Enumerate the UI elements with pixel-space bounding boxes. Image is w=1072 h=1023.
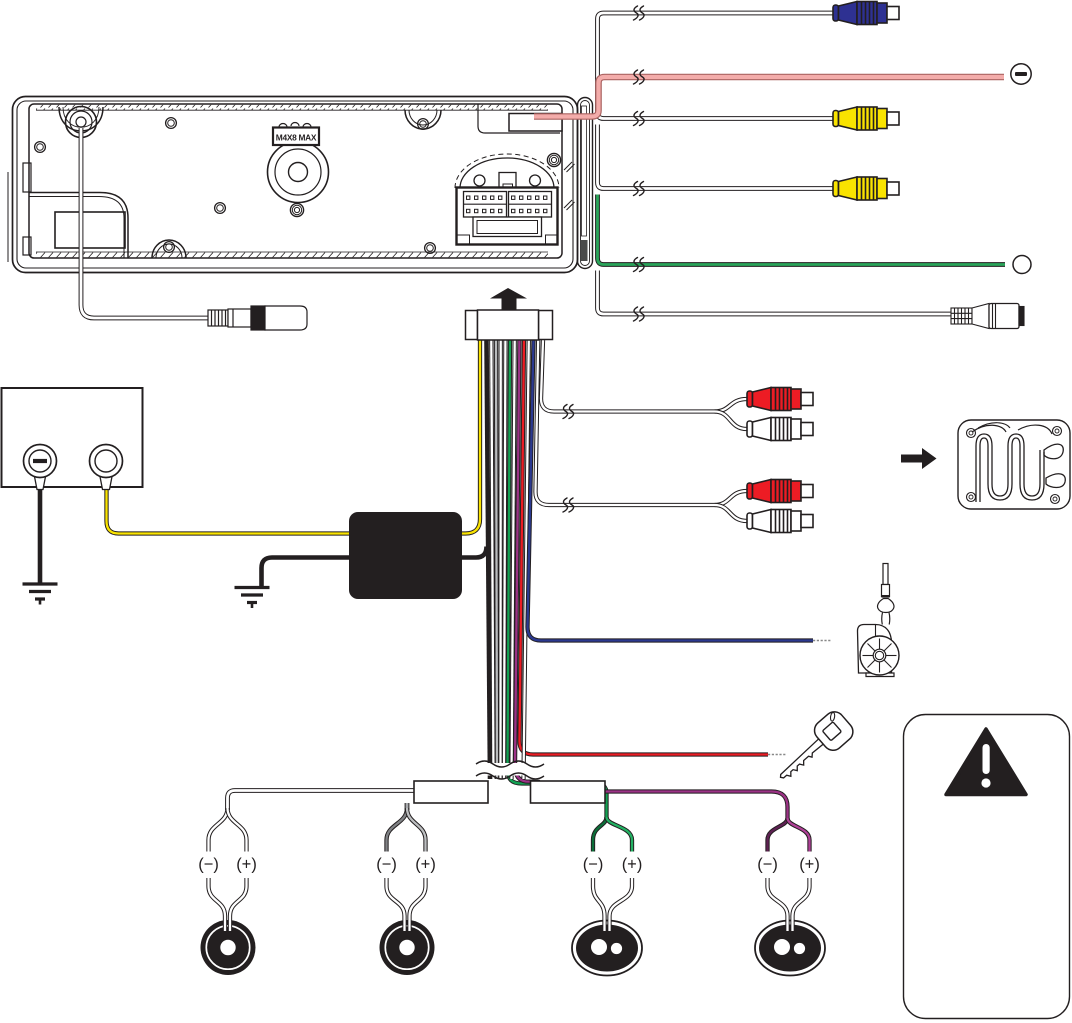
svg-text:(+): (+) — [799, 856, 820, 874]
svg-text:(−): (−) — [757, 856, 778, 874]
svg-text:(+): (+) — [415, 856, 436, 874]
svg-text:(−): (−) — [198, 856, 219, 874]
svg-text:(−): (−) — [376, 856, 397, 874]
svg-text:(−): (−) — [583, 856, 604, 874]
svg-text:(+): (+) — [236, 856, 257, 874]
svg-text:(+): (+) — [622, 856, 643, 874]
svg-text:M4X8 MAX: M4X8 MAX — [276, 133, 317, 143]
